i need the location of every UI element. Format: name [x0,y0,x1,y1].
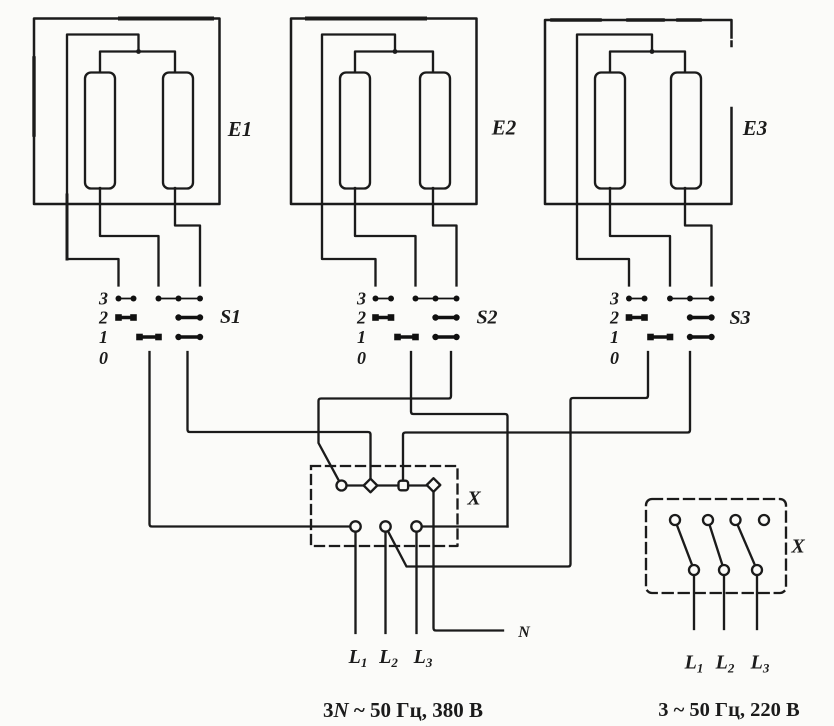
heating element E1.2 [163,73,193,189]
wire E1.1 bottom lead to switch middle contact [100,188,159,286]
switch S1 row 3 contact trio (right) [156,296,204,302]
wire X terminal B3 down to phase lead L3 [415,529,417,633]
heating element E1.1 [85,73,115,189]
wire X2 B1 down to lead L1 [693,572,695,629]
wire S3 output A down-left-down to X terminal B2 (with slant) [386,352,649,567]
wire (scan-thickened E1 tap drop) [66,195,69,259]
svg-text:3 ~ 50 Гц, 220 В: 3 ~ 50 Гц, 220 В [658,699,800,721]
svg-text:S2: S2 [476,307,497,329]
switch S3 row 2 contact pair (right) [687,314,715,320]
wire (scan-thickened top edge of E1 box) [120,17,212,21]
svg-text:L3: L3 [750,652,770,676]
enclosure E3 (heater unit shield box) [545,20,732,204]
terminal X:T4 [427,478,441,492]
heating element E3.2 [671,73,701,189]
svg-text:1: 1 [357,327,366,347]
svg-text:L1: L1 [684,652,704,676]
switch S3 row 3 contact trio (right) [667,296,715,302]
wire S2 output A to vertical junction and down to X terminal B3 link [411,352,508,527]
terminal X2:T4 [759,515,769,525]
terminal X2:B1 [689,565,699,575]
svg-text:2: 2 [356,308,366,328]
svg-text:1: 1 [99,327,108,347]
junction E2 tap [393,49,398,54]
heating element E2.2 [420,73,450,189]
svg-text:X: X [466,488,481,510]
switch S2 row 1 contact pair (left) [394,334,419,341]
switch S2 row 3 contact trio (right) [413,296,460,302]
svg-text:L2: L2 [715,652,735,676]
terminal block X (380 V connection) dashed outline [311,466,458,546]
wire X2 jumper T2-B2 [708,520,724,570]
svg-text:3N ~ 50 Гц, 380 В: 3N ~ 50 Гц, 380 В [323,698,483,722]
junction E1 tap [136,49,141,54]
wire E2 internal top bus joining both element tops [355,52,433,73]
switch S2 row 2 contact pair (left) [372,314,394,321]
switch S3 row 2 contact pair (left) [626,314,648,321]
wire bus S3 output B across to X terminal T3 [403,352,690,484]
terminal X:B3 [411,521,421,531]
wire E1 center tap to switch (upper jog, long drop to contact column) [67,35,139,286]
svg-text:0: 0 [610,348,619,368]
svg-text:3: 3 [609,289,619,309]
terminal X:B2 [380,521,390,531]
wire X terminal B3 link to riser [421,525,508,527]
wire (scan-thickened top edge of E2 box) [307,17,425,21]
svg-text:1: 1 [610,327,619,347]
terminal X2:B3 [752,565,762,575]
switch S3 row 1 contact pair (right) [687,334,715,340]
wire S1 output B to X terminal T2 [188,352,371,484]
switch S1 row 1 contact pair (left) [136,334,162,341]
svg-text:3: 3 [356,289,366,309]
wire X2 jumper T1-B1 [675,520,694,570]
svg-text:N: N [517,624,531,641]
svg-text:3: 3 [98,289,108,309]
svg-text:E3: E3 [742,116,768,140]
svg-text:E1: E1 [227,117,253,141]
wire (scan-thickened top edge of E3 box) [552,18,700,22]
wire E2 center tap to switch (upper jog, long drop to contact column) [322,35,395,286]
svg-text:S1: S1 [220,306,241,328]
svg-text:X: X [790,536,805,558]
switch S1 row 2 contact pair (right) [175,314,203,320]
wire E2.2 bottom lead to switch right contact [433,188,457,286]
enclosure E1 (heater unit shield box) [34,19,220,205]
wire S2 output B left and down to X terminal T1 (with slant) [319,352,452,486]
terminal X:T1 [337,481,347,491]
svg-text:0: 0 [357,348,366,368]
wire X terminal T4 down to neutral N [434,488,504,631]
terminal X2:T1 [670,515,680,525]
wire X terminal B2 down to phase lead L2 [384,529,386,633]
wire X2 B3 down to lead L3 [756,572,758,629]
wire X top-row link bar T1-T4 [342,484,434,486]
terminal X2:T3 [731,515,741,525]
svg-text:0: 0 [99,348,108,368]
wire E3 internal top bus joining both element tops [610,52,685,73]
switch S2 row 3 contact pair (left) [373,296,395,302]
wire E3 center tap to switch (upper jog, long drop to contact column) [577,35,652,286]
switch S3 row 3 contact pair (left) [626,296,648,302]
junction E3 tap [650,49,655,54]
switch S2 row 2 contact pair (right) [432,314,459,320]
switch S3 row 1 contact pair (left) [647,334,673,341]
svg-text:S3: S3 [729,307,750,329]
wire (scan-thickened left edge of E1 box) [32,58,35,135]
switch S1 row 3 contact pair (left) [116,296,137,302]
svg-text:L3: L3 [413,646,433,670]
wire S1 output A down-left to X terminal B1 (long run) [150,352,353,527]
switch S1 row 1 contact pair (right) [175,334,203,340]
wire X2 jumper T3-B3 [736,520,758,570]
wire X terminal B1 down to phase lead L1 [354,529,356,633]
terminal block X (220 V alternative) dashed outline [646,499,786,593]
enclosure E2 (heater unit shield box) [291,19,477,205]
svg-text:E2: E2 [491,116,517,140]
terminal X:T3 [399,481,409,491]
svg-text:L2: L2 [378,646,398,670]
wire E3.1 bottom lead to switch middle contact [610,188,670,286]
wire X2 B2 down to lead L2 [723,572,725,629]
heating element E3.1 [595,73,625,189]
wire E1.2 bottom lead to switch right contact [175,188,200,286]
terminal X:B1 [350,521,360,531]
terminal X2:B2 [719,565,729,575]
terminal X2:T2 [703,515,713,525]
heating element E2.1 [340,73,370,189]
svg-text:2: 2 [98,308,108,328]
terminal X:T2 [364,479,378,493]
switch S2 row 1 contact pair (right) [432,334,459,340]
switch S1 row 2 contact pair (left) [115,314,137,321]
wire E1 internal top bus joining both element tops [100,52,175,73]
wire E2.1 bottom lead to switch middle contact [355,188,416,286]
wire E3.2 bottom lead to switch right contact [685,188,712,286]
svg-text:2: 2 [609,308,619,328]
svg-text:L1: L1 [348,646,368,670]
